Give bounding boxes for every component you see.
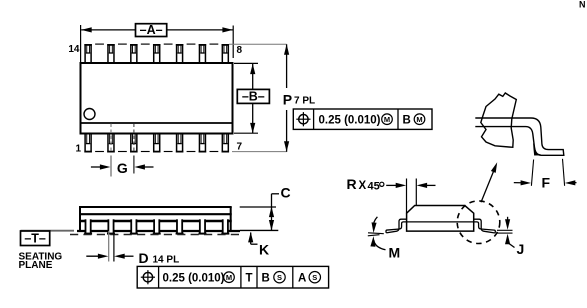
seating plane solid line	[77, 230, 240, 232]
svg-text:B: B	[403, 114, 411, 126]
dim P dimension line with arrows	[286, 44, 288, 88]
dim M extension lines	[368, 232, 384, 235]
svg-text:8: 8	[237, 45, 243, 56]
bottom pin 1	[84, 133, 91, 153]
dim J arrows	[507, 217, 509, 226]
bottom pin 6	[199, 133, 206, 153]
svg-text:N: N	[579, 0, 586, 10]
svg-text:J: J	[517, 241, 525, 257]
svg-text:B: B	[262, 273, 270, 285]
svg-text:7: 7	[237, 142, 243, 153]
detail: body break outline	[481, 93, 517, 147]
svg-text:0.25 (0.010): 0.25 (0.010)	[319, 114, 381, 126]
dim D arrows	[86, 255, 104, 257]
top pin 12	[130, 44, 137, 64]
svg-text:R: R	[347, 176, 357, 192]
side view body outline	[79, 206, 232, 208]
package body (top view)	[81, 63, 233, 134]
detail: lead profile	[475, 118, 564, 155]
package body internal line	[82, 122, 232, 124]
dim C dimension line with arrows	[271, 194, 273, 231]
detail leader arrow	[481, 167, 496, 203]
top pin 13	[107, 44, 114, 64]
datum T leader line	[21, 230, 75, 232]
side view lead 2	[107, 219, 115, 233]
dim C extension line	[240, 206, 276, 208]
top pin 11	[153, 44, 160, 64]
detail: lead heel fillet	[534, 144, 541, 156]
dim R arrows	[386, 184, 401, 186]
dashed line along bottom pin ends	[95, 151, 104, 153]
dim P extension line bottom	[232, 151, 287, 153]
svg-text:D: D	[139, 250, 149, 266]
seating plane dashed line	[70, 234, 242, 236]
svg-text:M: M	[226, 273, 232, 282]
svg-text:–B–: –B–	[242, 89, 265, 103]
dim A label box	[136, 24, 167, 37]
feature control frame top: M modifier	[382, 114, 393, 125]
feature control frame top: box	[293, 109, 432, 129]
bottom pin 4	[153, 133, 160, 153]
dim R extension lines	[406, 179, 408, 214]
dim K arrow and leader	[250, 233, 252, 245]
top pin 9	[199, 44, 206, 64]
svg-text:14: 14	[68, 44, 80, 55]
dim M arrows	[373, 217, 377, 227]
side view lead 7	[221, 219, 229, 233]
svg-text:S: S	[312, 273, 317, 282]
dim G arrows	[91, 166, 104, 168]
pin 2 centerline	[110, 124, 112, 154]
svg-text:X: X	[359, 180, 367, 192]
top pin 8	[222, 44, 229, 64]
svg-text:M: M	[416, 115, 422, 124]
dim F arrows	[514, 182, 527, 184]
svg-text:7 PL: 7 PL	[294, 96, 315, 107]
svg-text:14 PL: 14 PL	[153, 254, 180, 265]
svg-text:S: S	[277, 273, 282, 282]
dim A dimension line with arrows	[81, 29, 135, 31]
dim B extension line bottom	[234, 132, 258, 134]
side view lead 6	[198, 219, 206, 233]
side view lead 1	[84, 219, 92, 233]
svg-text:–T–: –T–	[24, 231, 46, 245]
side view lead 5	[176, 219, 184, 233]
svg-text:–A–: –A–	[140, 23, 163, 37]
svg-text:T: T	[245, 273, 252, 285]
svg-text:A: A	[298, 273, 306, 285]
dim J extension lines	[497, 229, 513, 231]
side view lead 3	[130, 219, 138, 233]
svg-text:K: K	[259, 241, 269, 257]
dim D extension lines	[108, 231, 110, 262]
svg-text:C: C	[281, 185, 291, 201]
svg-text:M: M	[389, 245, 401, 261]
svg-text:1: 1	[75, 144, 81, 155]
bottom pin 7	[222, 133, 229, 153]
svg-text:PLANE: PLANE	[19, 260, 53, 271]
feature control frame bottom: box	[137, 266, 328, 288]
dim A extension line left	[80, 25, 82, 62]
svg-text:F: F	[542, 174, 551, 190]
datum T box	[21, 231, 50, 246]
svg-text:P: P	[283, 91, 292, 107]
side view lead 4	[153, 219, 161, 233]
bottom pin 5	[176, 133, 183, 153]
bottom pin 3	[130, 133, 137, 153]
dim B label box	[237, 89, 269, 103]
dim B extension line top	[234, 62, 258, 64]
feature control frame bottom: position symbol	[143, 273, 152, 282]
feature control frame top: position symbol	[299, 115, 308, 124]
svg-text:G: G	[117, 160, 128, 176]
dashed line along top pin ends	[95, 43, 104, 45]
detail circle (dashed)	[457, 201, 500, 244]
end view body outline	[407, 206, 474, 232]
svg-text:M: M	[384, 115, 390, 124]
pin 1 indicator circle	[84, 109, 95, 120]
dim P extension line top	[229, 43, 287, 45]
svg-text:45: 45	[368, 181, 380, 193]
dim F extension lines	[531, 160, 533, 186]
pin 3 centerline	[133, 124, 135, 154]
svg-text:0.25 (0.010): 0.25 (0.010)	[163, 273, 225, 285]
end view lead ribbon	[386, 219, 495, 233]
dim A extension line right	[232, 26, 234, 59]
top pin 14	[84, 44, 91, 64]
dim B dimension line with arrows	[252, 64, 254, 90]
bottom pin 2	[107, 133, 114, 153]
top pin 10	[176, 44, 183, 64]
feature control frame bottom: M modifier	[224, 272, 235, 283]
